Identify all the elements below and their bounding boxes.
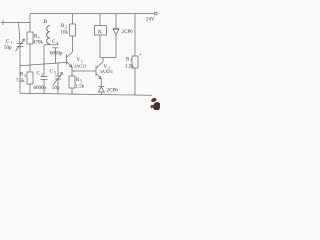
transistor V2 3AX31 — [95, 66, 97, 77]
wire C4 to base — [55, 48, 57, 63]
svg-text:1: 1 — [11, 41, 13, 45]
svg-text:4: 4 — [57, 42, 59, 46]
svg-text:470k: 470k — [33, 41, 44, 46]
resistor R3 — [27, 72, 33, 84]
terminal input tick — [2, 20, 4, 25]
wire C1 down — [19, 47, 21, 94]
resistor R5 emitter — [71, 67, 73, 76]
wire left branch x30 top — [29, 14, 31, 33]
svg-text:K: K — [98, 30, 102, 36]
wire C3 down — [57, 79, 59, 94]
wire x30 mid — [29, 44, 31, 72]
svg-text:2: 2 — [41, 73, 43, 77]
svg-text:3AG11: 3AG11 — [74, 64, 88, 69]
capacitor C1 variable — [19, 23, 21, 44]
wire R2 to V1 collector — [72, 36, 74, 52]
wire x44 from L1 to bias line — [43, 45, 45, 77]
resistor R1 — [27, 32, 33, 44]
capacitor C2 — [41, 76, 48, 78]
svg-text:5: 5 — [80, 80, 82, 84]
wire top rail 24V — [30, 13, 155, 15]
svg-text:1.5k: 1.5k — [76, 85, 85, 90]
wire R7 down — [134, 68, 136, 95]
svg-text:24V: 24V — [146, 18, 155, 23]
svg-text:2CP6: 2CP6 — [107, 89, 119, 94]
inductor L1 coil — [47, 26, 50, 45]
wire V1 emitter to V2 base — [72, 70, 96, 72]
capacitor C3 variable — [57, 63, 59, 76]
svg-text:3AX31: 3AX31 — [100, 69, 114, 74]
capacitor C4 — [53, 44, 59, 46]
diode VD1 2CP6 — [115, 35, 117, 58]
svg-text:+: + — [139, 53, 142, 58]
resistor R7 — [134, 14, 136, 57]
wire V2 collector up — [102, 58, 104, 62]
relay K — [99, 14, 101, 26]
svg-text:2: 2 — [65, 26, 67, 30]
diode VD2 2CP6 — [98, 86, 104, 88]
svg-text:10k: 10k — [61, 31, 69, 36]
svg-text:6000p: 6000p — [34, 86, 47, 91]
svg-text:6000p: 6000p — [50, 52, 63, 57]
svg-text:1.2k: 1.2k — [125, 65, 134, 70]
svg-text:50p: 50p — [4, 46, 12, 51]
svg-text:50p: 50p — [52, 86, 60, 91]
wire V2 emitter down — [100, 79, 102, 87]
svg-text:1: 1 — [38, 36, 40, 40]
svg-text:3: 3 — [54, 71, 56, 75]
wire R5 down — [71, 88, 73, 94]
wire input line left — [1, 22, 30, 24]
wire C2 down — [43, 80, 45, 94]
svg-text:V: V — [77, 58, 81, 63]
wire bias line y65.5 — [20, 62, 67, 65]
wire K bottom — [100, 35, 116, 58]
wire x30 bottom — [29, 84, 31, 94]
terminal 24V circle — [154, 12, 157, 15]
svg-text:7: 7 — [130, 59, 132, 63]
wire L1 bottom junction — [44, 43, 53, 46]
transistor V1 3AG11 — [66, 54, 68, 65]
svg-text:2CP6: 2CP6 — [122, 30, 134, 35]
artifact bottom right — [151, 98, 157, 102]
wire bottom rail — [20, 93, 152, 95]
svg-text:7.5k: 7.5k — [16, 79, 25, 84]
svg-text:3: 3 — [24, 74, 26, 78]
resistor R2 — [72, 14, 74, 25]
svg-text:B: B — [44, 19, 48, 25]
